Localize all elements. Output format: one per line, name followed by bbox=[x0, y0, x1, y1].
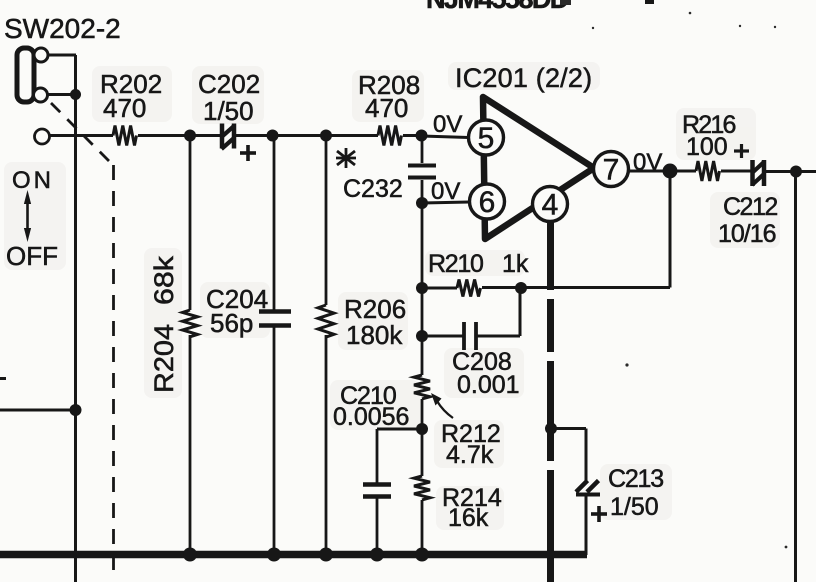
resistor R204 bbox=[183, 310, 198, 337]
wire switch bottom contact to junction bbox=[47, 93, 77, 96]
wire C213 vertical upper bbox=[585, 429, 588, 483]
svg-text:C232: C232 bbox=[343, 175, 403, 203]
capacitor C204 vertical line top bbox=[273, 136, 276, 312]
asterisk mark bbox=[336, 148, 356, 168]
svg-text:0V: 0V bbox=[633, 149, 662, 176]
ON/OFF double arrow bbox=[24, 190, 31, 242]
svg-text:C213: C213 bbox=[608, 465, 663, 493]
svg-text:470: 470 bbox=[365, 93, 408, 123]
wire feedback vertical bbox=[669, 171, 672, 288]
resistor R204 vertical line bbox=[189, 136, 192, 311]
wire R202 to C202 bbox=[138, 134, 220, 137]
svg-text:SW202-2: SW202-2 bbox=[4, 13, 121, 44]
svg-text:IC201 (2/2): IC201 (2/2) bbox=[455, 63, 592, 93]
junction bus R206 bbox=[319, 548, 333, 562]
wire C210 vertical upper bbox=[376, 429, 379, 483]
junction switch bbox=[70, 89, 81, 100]
switch linkage dashed vertical bbox=[112, 165, 115, 580]
input terminal circle bbox=[35, 129, 50, 144]
pin 4 circle bbox=[533, 187, 568, 222]
svg-text:0V: 0V bbox=[433, 111, 462, 138]
resistor R208 bbox=[378, 126, 401, 146]
wire node R212 lower segment bbox=[421, 399, 424, 476]
resistor R210 bbox=[457, 280, 480, 297]
junction bus C210 bbox=[370, 548, 384, 562]
svg-text:100: 100 bbox=[686, 133, 728, 161]
capacitor C210 bbox=[363, 485, 391, 497]
svg-text:R204: R204 bbox=[149, 324, 179, 393]
wire horizontal into switch line bbox=[0, 409, 76, 412]
svg-text:1/50: 1/50 bbox=[610, 493, 659, 521]
pin 6 circle bbox=[470, 184, 505, 219]
svg-text:180k: 180k bbox=[346, 320, 403, 350]
wire C208 right bbox=[477, 335, 520, 338]
wire R216 to C212 bbox=[721, 170, 751, 173]
svg-text:4.7k: 4.7k bbox=[446, 441, 494, 469]
switch contact circle top bbox=[34, 48, 48, 62]
junction R206 top bbox=[320, 130, 332, 142]
svg-text:6: 6 bbox=[479, 186, 496, 219]
svg-text:OFF: OFF bbox=[6, 241, 58, 271]
svg-text:R210: R210 bbox=[428, 250, 483, 278]
wire to pin 6 bbox=[422, 202, 470, 203]
wire feedback horizontal bbox=[482, 286, 670, 289]
wire C208 left bbox=[422, 335, 463, 338]
junction bus R204 bbox=[183, 548, 197, 562]
pin 7 circle bbox=[594, 152, 629, 187]
svg-text:10/16: 10/16 bbox=[718, 220, 776, 248]
junction bus C204 bbox=[267, 548, 281, 562]
junction R210 right bbox=[515, 282, 527, 294]
junction on switch line bbox=[70, 404, 82, 416]
svg-text:C202: C202 bbox=[198, 69, 260, 99]
wire C210 to bus bbox=[376, 498, 379, 555]
wire R204 to bus bbox=[189, 335, 192, 555]
svg-text:56p: 56p bbox=[210, 308, 253, 338]
junction inverting node top bbox=[416, 130, 428, 142]
switch linkage dashed diagonal bbox=[51, 103, 113, 165]
junction bus R214 bbox=[415, 548, 429, 562]
arrow pointer to R212 bbox=[437, 401, 453, 418]
svg-text:7: 7 bbox=[603, 154, 620, 187]
resistor R212 bbox=[414, 375, 430, 399]
wire node vertical upper bbox=[421, 136, 424, 164]
capacitor C232 bbox=[408, 166, 436, 178]
tick mark top bbox=[645, 0, 654, 4]
wire C204 to bus bbox=[273, 327, 276, 555]
switch SW202-2 body bracket bbox=[17, 48, 34, 102]
resistor R214 bbox=[414, 476, 430, 500]
wire C202 to R208 bbox=[235, 134, 379, 137]
svg-text:0.001: 0.001 bbox=[457, 371, 520, 399]
svg-text:4: 4 bbox=[542, 189, 559, 222]
wire right vertical down bbox=[794, 172, 797, 582]
capacitor C213 (polarized, hatched plate) bbox=[576, 481, 607, 523]
pin 4 heavy broken line down bbox=[547, 221, 554, 582]
wire output pin7 bbox=[628, 170, 696, 173]
wire C213 horizontal bbox=[551, 427, 586, 430]
wire switch vertical line down full height bbox=[74, 55, 77, 582]
wire C208 up to R210 bbox=[519, 288, 522, 336]
pin 5 circle bbox=[469, 120, 504, 155]
capacitor C208 bbox=[464, 322, 476, 350]
junction C212 right bbox=[790, 166, 802, 178]
junction C208 left bbox=[416, 330, 428, 342]
junction R202/R204 bbox=[184, 130, 196, 142]
capacitor C202 (polarized, hatched plate) bbox=[222, 124, 257, 162]
svg-text:16k: 16k bbox=[448, 504, 489, 532]
wire stub left edge bbox=[0, 377, 6, 380]
wire R206 to bus bbox=[325, 335, 328, 555]
svg-text:NJM4558DD: NJM4558DD bbox=[426, 0, 569, 14]
wire switch top contact to vertical bbox=[47, 54, 76, 57]
wire C213 to bus bbox=[585, 496, 588, 555]
plus sign R216/C212 bbox=[734, 144, 749, 158]
wire to pin 5 bbox=[422, 136, 469, 138]
wire main input line bbox=[50, 134, 114, 137]
wire node vertical below C232 bbox=[421, 180, 424, 375]
wire R208 to node bbox=[403, 134, 422, 137]
switch contact circle bottom bbox=[34, 88, 48, 102]
svg-text:1/50: 1/50 bbox=[203, 96, 254, 126]
resistor R216 bbox=[696, 161, 720, 181]
scan specks bbox=[560, 0, 787, 548]
svg-text:68k: 68k bbox=[149, 255, 179, 305]
capacitor C204 bbox=[259, 312, 291, 326]
junction pin6 node bbox=[416, 197, 428, 209]
svg-text:0.0056: 0.0056 bbox=[333, 403, 409, 431]
svg-text:0V: 0V bbox=[431, 178, 460, 205]
wire C210 horizontal bbox=[377, 428, 422, 431]
junction output bbox=[663, 164, 678, 179]
svg-text:1k: 1k bbox=[502, 250, 529, 278]
svg-text:5: 5 bbox=[478, 122, 495, 155]
wire R214 to bus bbox=[421, 500, 424, 555]
resistor R202 bbox=[113, 126, 137, 146]
op-amp IC201 triangle bbox=[483, 97, 594, 239]
resistor R206 vertical line top bbox=[325, 136, 328, 306]
junction C204 top bbox=[267, 130, 279, 142]
junction R210 left bbox=[416, 282, 428, 294]
svg-text:470: 470 bbox=[103, 93, 146, 123]
junction C213 tap bbox=[545, 423, 557, 435]
svg-text:ON: ON bbox=[12, 167, 54, 194]
ground bus heavy line bbox=[0, 551, 587, 559]
wire R210 left bbox=[422, 287, 457, 290]
capacitor C212 (polarized, hatched plate) bbox=[752, 160, 765, 186]
wire C212 to right edge bbox=[765, 170, 816, 173]
resistor R206 bbox=[318, 305, 334, 337]
svg-text:C212: C212 bbox=[723, 193, 777, 221]
junction R212/R214 bbox=[416, 423, 428, 435]
